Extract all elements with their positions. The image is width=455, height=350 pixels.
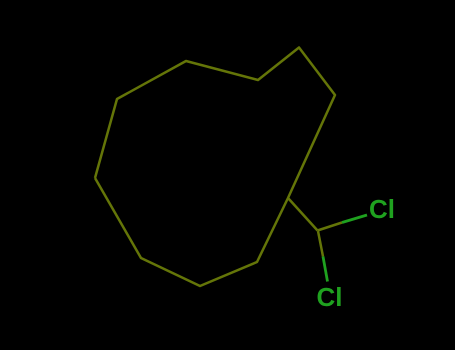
bond C to upper Cl : olive half	[318, 223, 343, 231]
bond ring to CHCl2 carbon	[288, 198, 318, 231]
svg-text:Cl: Cl	[317, 282, 343, 312]
bond C to lower Cl : green half	[323, 257, 328, 282]
svg-text:Cl: Cl	[369, 194, 395, 224]
bond C to lower Cl : olive half	[318, 231, 323, 257]
ring outline	[95, 48, 335, 287]
bond C to upper Cl : green half	[342, 215, 367, 223]
